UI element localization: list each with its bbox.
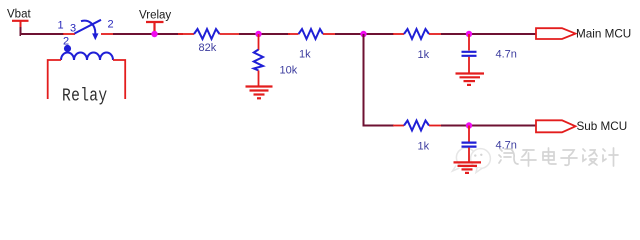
ground (main cap)	[456, 74, 485, 85]
junction node1	[255, 31, 261, 37]
svg-text:82k: 82k	[199, 42, 217, 54]
wire: 1k to node2	[335, 33, 394, 35]
junction node4	[466, 122, 472, 128]
capacitor bottom pin (sub)	[468, 148, 470, 162]
车	[521, 150, 536, 166]
svg-text:Sub MCU: Sub MCU	[577, 120, 628, 133]
resistor 1k main right pin	[429, 33, 442, 35]
capacitor plates (sub)	[462, 143, 477, 147]
电	[543, 148, 556, 164]
svg-text:Relay: Relay	[62, 86, 108, 107]
设	[583, 149, 597, 165]
svg-text:1k: 1k	[299, 49, 311, 61]
capacitor plates	[462, 52, 477, 56]
svg-text:Vrelay: Vrelay	[139, 10, 171, 22]
wire: node2 down to sub branch	[364, 34, 395, 126]
resistor 82k right pin	[220, 33, 241, 35]
power symbol Vbat	[12, 20, 29, 22]
switch actuate arrow	[81, 21, 95, 34]
watermark logo	[453, 148, 491, 173]
port Sub MCU	[536, 120, 576, 132]
resistor 1k sub body	[404, 121, 429, 131]
svg-text:1k: 1k	[418, 49, 430, 61]
coil pin dot	[64, 45, 71, 52]
junction Vrelay	[151, 31, 157, 37]
switch pin2 (red pin)	[101, 33, 114, 35]
svg-text:1: 1	[58, 20, 64, 32]
svg-text:2: 2	[108, 19, 114, 31]
resistor R 82k left pin	[178, 33, 194, 35]
resistor R 1k (main) left pin	[393, 33, 404, 35]
switch S pin1 (red pin)	[63, 33, 75, 35]
svg-text:4.7n: 4.7n	[496, 140, 517, 152]
resistor R 10k body	[254, 50, 263, 71]
watermark text 汽车电子设计	[499, 148, 618, 166]
capacitor C 4.7n (sub) top pin	[468, 126, 470, 142]
resistor 10k bottom pin	[258, 71, 260, 87]
coil right pin	[113, 60, 125, 99]
ground (sub cap)	[454, 162, 482, 173]
svg-text:10k: 10k	[280, 65, 298, 77]
wire: Vbat to switch pin1	[20, 33, 65, 35]
resistor R 10k top pin	[258, 34, 260, 50]
svg-text:4.7n: 4.7n	[496, 49, 517, 61]
汽	[499, 149, 518, 164]
resistor 1k body	[299, 29, 324, 39]
wire: Vbat stub down	[20, 21, 22, 28]
子	[561, 150, 577, 165]
resistor R 1k (first) left pin	[288, 33, 299, 35]
port Main MCU	[536, 28, 576, 39]
svg-text:1k: 1k	[418, 141, 430, 153]
junction node2	[360, 31, 366, 37]
resistor R 1k (sub) left pin	[393, 125, 404, 127]
ground (10k)	[246, 87, 273, 99]
resistor 1k right pin	[323, 33, 336, 35]
wire: 1k to node3	[441, 33, 536, 35]
resistor R 82k body	[194, 29, 220, 39]
resistor 1k main body	[404, 29, 429, 39]
switch blade	[75, 20, 102, 34]
power symbol Vrelay	[146, 22, 164, 34]
coil left pin	[48, 60, 61, 99]
svg-text:Main MCU: Main MCU	[576, 28, 631, 41]
resistor 1k sub right pin	[429, 125, 442, 127]
svg-text:Vbat: Vbat	[7, 9, 31, 21]
capacitor bottom pin	[468, 57, 470, 73]
relay coil L	[61, 53, 113, 61]
wire: 1k sub to node4	[441, 125, 536, 127]
svg-text:3: 3	[70, 23, 76, 35]
capacitor C 4.7n (main) top pin	[468, 34, 470, 51]
wire: 82k to node1	[239, 33, 290, 35]
junction node3	[466, 31, 472, 37]
wire: switch to Vrelay node	[113, 33, 183, 35]
计	[603, 148, 618, 166]
